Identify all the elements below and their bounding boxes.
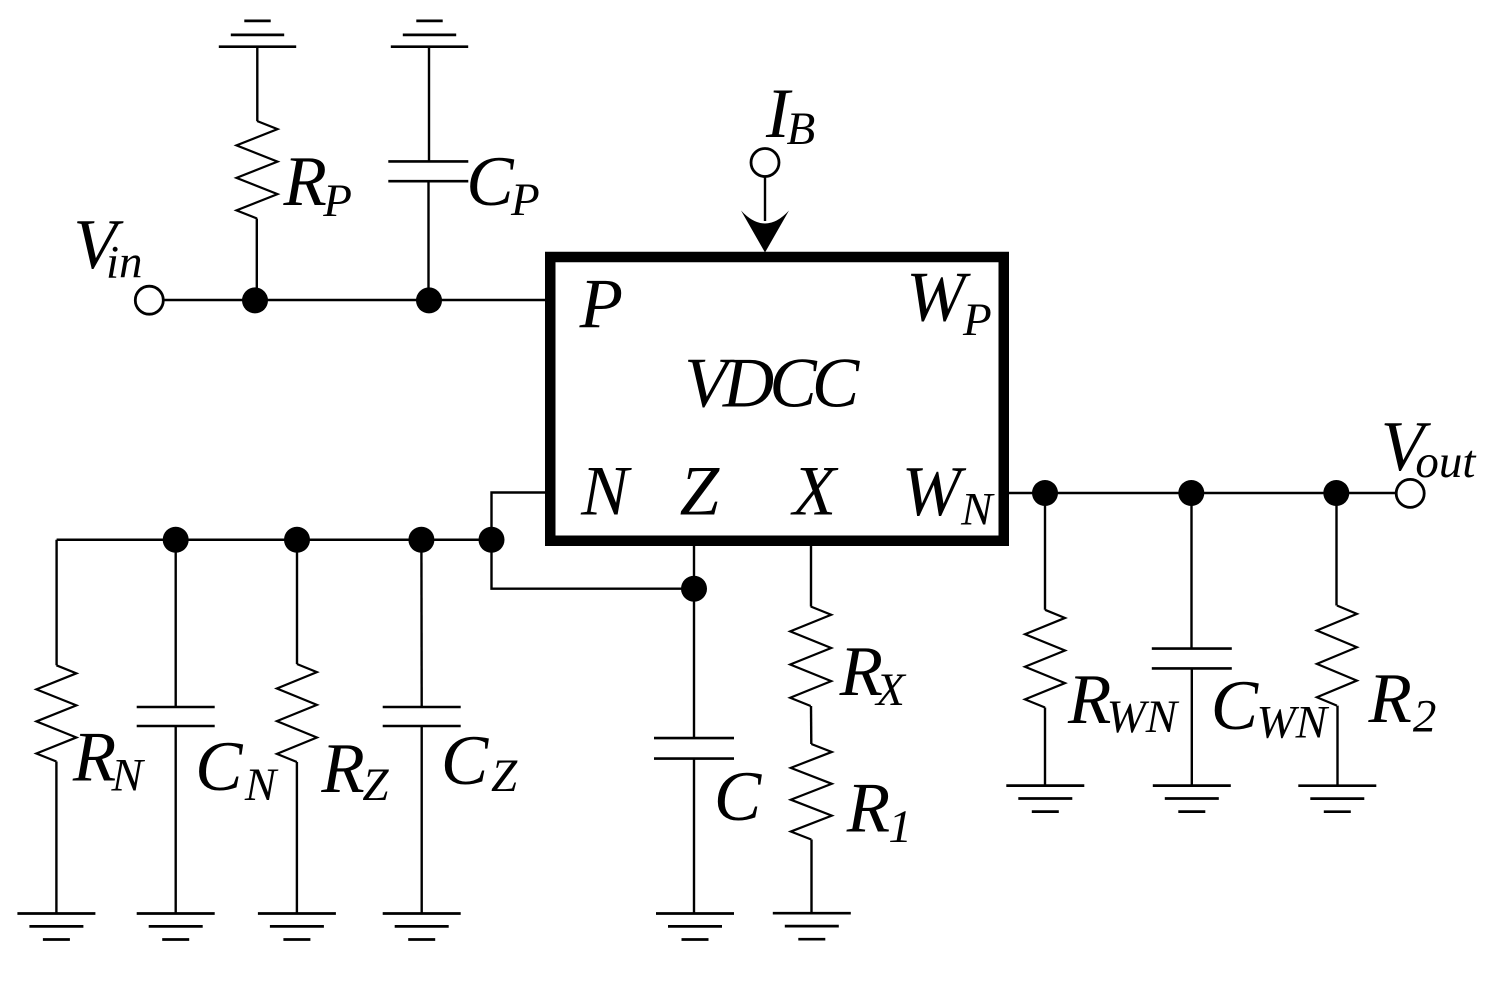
svg-text:N: N (960, 484, 995, 536)
svg-text:2: 2 (1413, 691, 1437, 743)
terminal IB (751, 149, 779, 177)
wire ground to RP (256, 47, 258, 121)
capacitor CN (137, 706, 215, 709)
svg-text:W: W (906, 259, 971, 337)
ground RWN (1006, 784, 1084, 787)
wire IB to arrow (764, 177, 766, 222)
svg-text:WN: WN (1107, 691, 1180, 743)
op-block U1 VDCC body (550, 257, 1004, 541)
wire Z pin down to C (693, 543, 695, 738)
wire R2 to ground (1336, 706, 1338, 786)
wire bus to RN (55, 540, 57, 666)
wire ground to CP (428, 47, 430, 162)
wire WN to RWN (1044, 493, 1046, 610)
svg-text:C: C (1211, 667, 1260, 745)
svg-text:P: P (510, 174, 540, 226)
svg-text:N: N (111, 750, 146, 802)
node CWN tap (1178, 480, 1204, 506)
wire CZ to ground (421, 726, 423, 914)
svg-text:P: P (579, 266, 623, 344)
svg-text:P: P (322, 175, 352, 227)
ground RN (17, 912, 95, 915)
svg-text:R: R (320, 730, 364, 808)
wire RN to ground (55, 762, 57, 914)
svg-text:N: N (580, 452, 632, 530)
svg-text:R: R (283, 143, 327, 221)
svg-text:R: R (1067, 661, 1111, 739)
capacitor CWN (1152, 647, 1232, 650)
terminal Vin (135, 286, 163, 314)
resistor RWN (1025, 610, 1065, 708)
svg-text:R: R (72, 719, 116, 797)
capacitor C (654, 737, 734, 740)
ground top of CP (391, 45, 468, 48)
wire X pin to RX (810, 543, 812, 607)
arrowhead IB into box (741, 211, 789, 253)
svg-text:X: X (790, 452, 839, 530)
wire RX to R1 (810, 706, 813, 744)
wire RWN to ground (1044, 708, 1046, 786)
wire CWN to ground (1191, 668, 1193, 785)
node bus/RZ (284, 527, 310, 553)
svg-text:R: R (1368, 660, 1412, 738)
wire N pin to bus (492, 493, 549, 541)
resistor R1 (791, 744, 832, 840)
svg-text:Z: Z (680, 453, 721, 531)
svg-text:Z: Z (362, 759, 389, 811)
wire Vin to P pin (164, 299, 548, 301)
svg-text:R: R (846, 770, 890, 848)
capacitor CZ (383, 706, 461, 709)
node R2 tap (1323, 480, 1349, 506)
wire bus to CN (174, 540, 176, 707)
svg-text:P: P (962, 294, 992, 346)
svg-text:C: C (466, 143, 515, 221)
resistor R2 (1317, 606, 1357, 706)
wire bus to RZ (296, 540, 298, 664)
svg-text:X: X (874, 664, 907, 716)
ground R1 (773, 912, 851, 915)
wire bus to CZ (420, 540, 423, 707)
svg-text:W: W (902, 453, 967, 531)
svg-text:C: C (714, 758, 763, 836)
svg-text:in: in (106, 237, 143, 289)
capacitor CP (388, 160, 468, 163)
ground CZ (383, 912, 461, 915)
wire CN to ground (174, 726, 176, 914)
wire C to ground (693, 759, 695, 914)
ground top of RP (219, 45, 296, 48)
svg-text:Z: Z (491, 750, 518, 802)
ground C (656, 912, 734, 915)
node RWN tap (1032, 480, 1058, 506)
resistor RZ (277, 664, 317, 762)
wire RZ to ground (296, 762, 298, 914)
wire WN to CWN (1190, 493, 1192, 649)
wire CP to input node (427, 181, 429, 301)
wire R1 to ground (810, 840, 812, 914)
svg-text:N: N (244, 759, 279, 811)
svg-text:1: 1 (888, 801, 912, 853)
wire bus node N (57, 539, 492, 541)
resistor RP (237, 121, 278, 219)
node bus/CZ (408, 527, 434, 553)
svg-text:C: C (195, 728, 244, 806)
ground CN (137, 912, 215, 915)
svg-text:WN: WN (1257, 697, 1330, 749)
svg-text:C: C (441, 722, 490, 800)
wire WN to R2 (1335, 493, 1337, 606)
ground CWN (1153, 784, 1231, 787)
terminal Vout (1396, 479, 1424, 507)
svg-text:out: out (1415, 436, 1476, 488)
ground R2 (1298, 784, 1376, 787)
ground RZ (258, 912, 336, 915)
wire bus to Z node (492, 540, 695, 589)
resistor RN (36, 665, 76, 761)
wire RP to input node (256, 219, 258, 302)
node bus/CN (163, 527, 189, 553)
node Z junction (681, 576, 707, 602)
node bus/Npin (479, 527, 505, 553)
svg-text:B: B (787, 103, 816, 155)
svg-text:VDCC: VDCC (684, 345, 861, 423)
resistor RX (790, 607, 831, 707)
node junction RP/input (242, 287, 268, 313)
wire WN pin to Vout (1006, 492, 1396, 494)
node junction CP/input (416, 287, 442, 313)
